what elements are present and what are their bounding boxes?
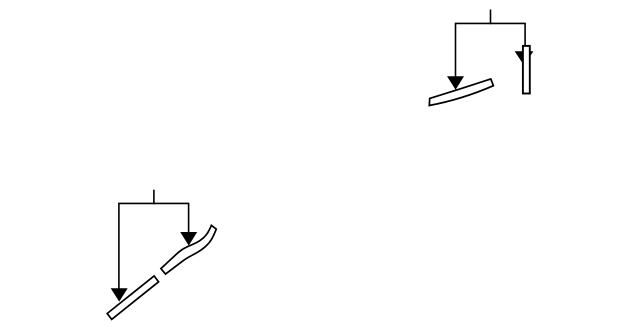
wire: top stub A (490, 10, 492, 25)
broken board: lower straight piece (107, 276, 158, 320)
broken board: upper bent (S-curved) piece (161, 225, 216, 274)
wire: bracket A (horizontal bar with two drops) (456, 23, 526, 77)
arrowhead B-left (force onto lower broken piece) (111, 288, 128, 301)
wire: top stub B (153, 190, 155, 205)
arrowhead A-right (force onto edge-on board, partly hidden) (515, 51, 534, 65)
wire: bracket B (horizontal bar with two drops) (119, 203, 189, 288)
edge-on board (vertical slat) (523, 46, 530, 94)
arrowhead B-right (force onto upper broken piece) (180, 232, 197, 246)
bent board (face view, bowed under load) (429, 79, 493, 106)
arrowhead A-left (force onto bending board) (447, 76, 464, 90)
